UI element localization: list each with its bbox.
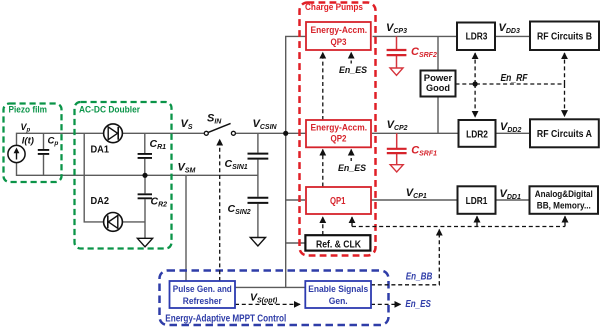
current source I(t): [8, 145, 25, 162]
dashed control: arrow into Analog box bottom: [564, 216, 566, 226]
box: Energy-Accm. QP2: [306, 120, 371, 147]
box: LDR3: [457, 23, 495, 51]
svg-text:Enable Signals: Enable Signals: [308, 283, 368, 294]
svg-text:DA2: DA2: [91, 196, 110, 207]
green dashed box: Piezo film: [4, 104, 62, 183]
svg-text:Charge Pumps: Charge Pumps: [305, 2, 363, 12]
capacitor Cp: [38, 150, 49, 154]
box: Ref. & CLK: [305, 235, 370, 250]
switch SIN: [204, 123, 235, 135]
svg-text:VCP1: VCP1: [406, 187, 427, 200]
svg-text:RF Circuits A: RF Circuits A: [537, 129, 592, 140]
svg-text:VSM: VSM: [178, 161, 196, 174]
diode DA1: [104, 124, 123, 143]
wire: CR1 stubs: [144, 133, 146, 175]
svg-text:VCP3: VCP3: [386, 22, 407, 35]
svg-text:En_ES: En_ES: [405, 299, 431, 310]
capacitor CSRF1 (red): [387, 133, 407, 172]
dashed control: CLK chain QP1 to QP2: [322, 150, 324, 187]
box: LDR2: [459, 120, 496, 147]
wire: QP1 input: [286, 199, 305, 201]
svg-text:VS: VS: [181, 118, 193, 131]
svg-text:VDD2: VDD2: [500, 121, 521, 134]
green dashed box: AC-DC Doubler: [75, 102, 172, 249]
svg-text:RF Circuits B: RF Circuits B: [537, 32, 592, 43]
wire: VCP3 tap down to Power Good top: [437, 36, 439, 70]
wire: CSIN column: [257, 133, 259, 237]
svg-text:Energy-Accm.: Energy-Accm.: [311, 25, 368, 35]
svg-text:En_RF: En_RF: [501, 73, 529, 84]
wire: LDR3 to RF Circuits B: [495, 35, 530, 37]
svg-text:Refresher: Refresher: [183, 295, 222, 306]
svg-text:CR2: CR2: [151, 195, 168, 208]
wire: switch to VCSIN junction and QP2 input: [235, 132, 305, 134]
svg-text:LDR3: LDR3: [466, 31, 488, 42]
svg-text:Power: Power: [424, 73, 453, 83]
dashed control: arrow from En net into QP1: [351, 217, 353, 227]
svg-text:I(t): I(t): [22, 135, 34, 146]
svg-text:QP3: QP3: [331, 37, 347, 48]
svg-text:QP2: QP2: [331, 134, 347, 145]
wire: piezo bottom / VSM rail: [17, 163, 258, 176]
wire: VCP1 QP1 to LDR1: [372, 199, 458, 201]
dashed control: CLK chain QP2 to QP3: [322, 53, 324, 121]
svg-text:VDD1: VDD1: [500, 188, 521, 201]
blue dashed box: Energy-Adaptive MPPT Control: [160, 271, 389, 326]
svg-text:Cp: Cp: [48, 136, 59, 148]
dashed control: VS(opt) arrow Pulse to Enable: [235, 303, 300, 305]
dashed control: En_RF arrow down into RF Circuits A: [564, 84, 566, 116]
svg-text:QP1: QP1: [330, 195, 346, 207]
capacitor CR2: [138, 194, 152, 198]
wire: Pulse Gen to Enable Signals: [235, 286, 305, 288]
wire: CR2 column to ground: [144, 175, 146, 238]
dashed control: arrow into LDR1 bottom: [476, 216, 478, 226]
capacitor CSRF2 (red): [387, 36, 407, 75]
svg-text:Piezo film: Piezo film: [9, 105, 48, 115]
svg-text:En_ES: En_ES: [338, 163, 367, 174]
svg-text:VCP2: VCP2: [387, 119, 408, 132]
wire: Ref&CLK input: [286, 242, 306, 244]
svg-text:VCSIN: VCSIN: [253, 118, 278, 131]
box: RF Circuits A: [530, 119, 599, 147]
svg-text:CSRF2: CSRF2: [411, 46, 437, 59]
wire: VCP3 QP3 to LDR3: [373, 35, 458, 37]
svg-text:Pulse Gen. and: Pulse Gen. and: [173, 283, 232, 294]
dashed control: En_RF line from Power Good: [456, 83, 565, 85]
box: QP1: [306, 187, 371, 214]
svg-text:Vp: Vp: [21, 122, 31, 134]
capacitor CSIN1: [248, 154, 269, 159]
svg-text:En_BB: En_BB: [406, 272, 433, 283]
wire: Power Good bottom to VCP2 wire: [437, 97, 439, 134]
dashed control: En_RF arrow up into LDR3: [474, 53, 476, 84]
svg-text:Good: Good: [426, 83, 450, 93]
svg-text:En_ES: En_ES: [339, 65, 368, 76]
wire: VCSIN vertical trunk up to QP3 input: [286, 36, 307, 133]
dashed control: En_BB riser from Enable Signals: [371, 230, 439, 285]
svg-text:CSIN1: CSIN1: [225, 158, 248, 171]
ground (CSIN2): [250, 238, 265, 247]
ground (CR2): [137, 238, 152, 247]
svg-text:Energy-Adaptive MPPT Control: Energy-Adaptive MPPT Control: [165, 314, 286, 325]
dashed control: En_RF arrow up into RF Circuits B: [564, 53, 566, 84]
red dashed box: Charge Pumps: [300, 3, 376, 256]
svg-text:CSIN2: CSIN2: [228, 203, 251, 216]
box: RF Circuits B: [530, 22, 599, 51]
node: CR junction dot on VSM: [142, 173, 147, 178]
box: Pulse Gen. and Refresher: [170, 281, 236, 308]
box: Analog&Digital BB, Memory: [530, 186, 599, 214]
svg-text:DA1: DA1: [91, 145, 110, 156]
wire: VCP2 QP2 to LDR2: [372, 132, 459, 134]
wire: LDR1 to Analog box: [496, 199, 530, 201]
wire: AC-DC left vertical + DA2 branch: [84, 133, 145, 222]
box: Power Good: [421, 71, 456, 97]
dashed control: En net under LDR1 row: [352, 226, 565, 228]
wire: Cp stubs: [43, 133, 45, 175]
dashed control: CLK chain RefCLK to QP1: [322, 217, 324, 235]
dashed control: En_ES arrow into QP3: [350, 53, 352, 64]
svg-text:BB, Memory...: BB, Memory...: [537, 200, 591, 211]
dashed control: En_ES arrow into QP2: [350, 150, 352, 162]
node: En_RF junction dot: [473, 81, 478, 86]
dashed control: En_ES output arrow: [371, 303, 401, 305]
wire: VSM tap down to Pulse Gen: [185, 175, 187, 281]
svg-text:LDR2: LDR2: [466, 129, 488, 140]
box: Energy-Accm. QP3: [306, 22, 371, 50]
box: Enable Signals Gen.: [305, 281, 371, 308]
box: LDR1: [458, 186, 496, 214]
diode DA2: [104, 213, 123, 232]
dashed control: En_RF arrow down into LDR2: [474, 84, 476, 117]
capacitor CSIN2: [248, 198, 269, 203]
node: VCSIN junction dot: [283, 131, 288, 136]
svg-text:VDD3: VDD3: [499, 22, 520, 35]
svg-text:VS(opt): VS(opt): [250, 291, 278, 304]
dashed control: SIN gate line: [219, 140, 221, 282]
wire: VCSIN vertical trunk down to MPPT: [285, 133, 287, 287]
svg-text:Energy-Accm.: Energy-Accm.: [311, 123, 368, 133]
svg-text:Gen.: Gen.: [329, 295, 348, 306]
wire: piezo + main top wire to switch: [17, 36, 531, 287]
svg-text:Ref. & CLK: Ref. & CLK: [316, 239, 361, 250]
svg-text:CSRF1: CSRF1: [411, 145, 437, 158]
wire: LDR2 to RF Circuits A: [496, 132, 531, 134]
svg-text:LDR1: LDR1: [466, 196, 488, 207]
svg-text:Analog&Digital: Analog&Digital: [535, 188, 593, 199]
svg-text:SIN: SIN: [207, 112, 222, 125]
svg-text:AC-DC Doubler: AC-DC Doubler: [79, 105, 140, 115]
svg-text:CR1: CR1: [150, 138, 167, 151]
capacitor CR1: [138, 154, 152, 158]
